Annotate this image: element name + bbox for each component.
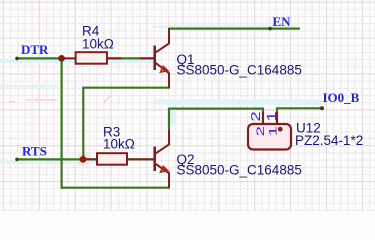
- svg-text:DTR: DTR: [21, 42, 49, 57]
- svg-text:1: 1: [267, 126, 279, 136]
- svg-text:IO0_B: IO0_B: [323, 90, 360, 105]
- svg-text:10kΩ: 10kΩ: [103, 136, 135, 151]
- svg-text:EN: EN: [273, 14, 292, 29]
- svg-text:10kΩ: 10kΩ: [82, 37, 114, 52]
- svg-text:RTS: RTS: [22, 143, 47, 158]
- svg-text:1: 1: [265, 111, 278, 122]
- svg-text:SS8050-G_C164885: SS8050-G_C164885: [177, 163, 302, 178]
- svg-text:2: 2: [255, 126, 267, 136]
- svg-text:SS8050-G_C164885: SS8050-G_C164885: [177, 63, 302, 78]
- svg-text:2: 2: [249, 111, 262, 122]
- svg-text:PZ2.54-1*2: PZ2.54-1*2: [295, 133, 363, 148]
